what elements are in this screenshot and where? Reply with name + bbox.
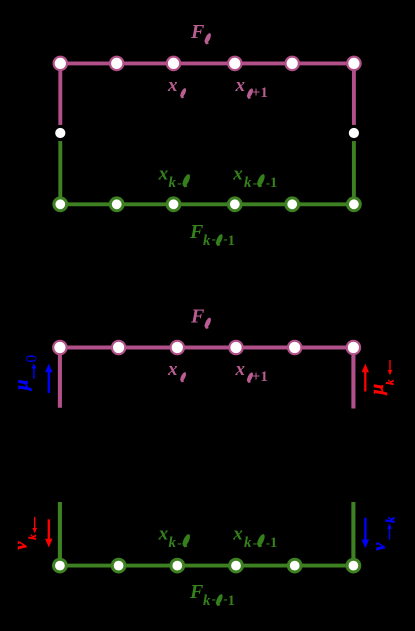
label: F_k-l-1 (top figure) [189,221,235,249]
svg-text:k: k [385,379,397,385]
node: green path vertex 6 (bottom figure) [347,559,360,572]
label: rotated red nu (bottom-left walk label) [10,541,30,550]
svg-text:1: 1 [270,175,277,191]
svg-text:-: - [177,535,181,550]
node: green path vertex 1 (bottom figure) [54,559,67,572]
svg-text:-: - [212,231,216,246]
svg-text:x: x [167,359,178,380]
svg-text:-: - [177,175,181,190]
node: top row pink vertex x_l+1 [228,57,241,70]
label: rotated red subscript k (bottom-left walk label) [27,534,39,540]
label: rotated red mu (top-right walk label) [367,384,388,396]
svg-text:1: 1 [228,233,235,249]
svg-text:ν: ν [10,541,30,550]
node: bottom row green vertex 5 [286,198,299,211]
node: pink path vertex x_l (bottom figure) [171,341,184,354]
label: F_l (top figure) [190,21,212,44]
wire: right pink vertical edge (top figure) [352,63,356,133]
svg-text:k: k [244,175,252,191]
wire: pink left downward stub [58,348,62,408]
node: left middle white vertex [54,126,67,139]
svg-text:k: k [203,593,211,609]
svg-text:x: x [235,359,246,380]
node: green path vertex 5 (bottom figure) [288,559,301,572]
node: green path vertex 2 (bottom figure) [112,559,125,572]
node: bottom row green vertex x_k-l-1 [228,198,241,211]
node: pink path vertex 2 (bottom figure) [112,341,125,354]
label: x_l+1 (top figure) [235,75,268,101]
node: top row pink vertex 5 [286,57,299,70]
label: x_k-l-1 (bottom figure) [232,523,277,551]
label: rotated blue mu (top-left walk label) [12,380,33,392]
arrow: thin red down arrow (bottom-left walk label) [32,517,37,533]
node: pink path vertex x_l+1 (bottom figure) [229,341,242,354]
node: bottom row green vertex 6 [348,198,361,211]
node: bottom row green vertex 2 [110,198,123,211]
wire: green left upward stub [58,502,62,566]
node: top row pink vertex 6 [347,57,360,70]
wire: left pink vertical edge (top figure) [58,63,62,133]
wire: bottom green path row (top figure) [60,202,354,206]
svg-text:k: k [244,535,252,551]
node: top row pink vertex x_l [167,57,180,70]
node: pink path vertex 6 (bottom figure) [347,341,360,354]
svg-text:F: F [189,221,204,243]
label: F_k-l-1 (bottom figure) [189,581,235,609]
arrow: bold red up arrow beside pink right stub [362,364,369,392]
svg-text:-: - [253,175,257,190]
svg-text:x: x [232,163,243,184]
label: rotated red subscript k (top-right walk label) [385,379,397,385]
svg-text:+1: +1 [252,369,268,385]
wire: left green vertical edge (top figure) [58,133,62,204]
node: green path vertex x_k-l (bottom figure) [171,559,184,572]
node: top row pink vertex 1 [54,57,67,70]
svg-text:ν: ν [369,542,389,551]
svg-text:-: - [253,535,257,550]
svg-text:F: F [189,581,204,603]
node: bottom row green vertex x_k-l [167,198,180,211]
svg-text:-: - [212,591,216,606]
svg-text:1: 1 [270,535,277,551]
svg-text:k: k [169,175,177,191]
svg-text:F: F [190,306,205,328]
svg-text:μ: μ [12,380,33,392]
svg-text:0: 0 [23,354,40,362]
arrow: thin blue up arrow (bottom-right walk label) [387,524,392,540]
svg-text:x: x [158,523,169,544]
label: rotated blue subscript k (bottom-right walk label) [383,516,398,523]
label: rotated blue nu (bottom-right walk label) [369,542,389,551]
wire: green path row (bottom figure) [60,564,354,568]
arrow: bold blue up arrow beside pink left stub [45,364,52,393]
svg-text:k: k [169,535,177,551]
svg-text:k: k [383,516,398,523]
node: green path vertex x_k-l-1 (bottom figure) [230,559,243,572]
label: x_l (bottom figure) [167,359,187,382]
wire: pink path row (bottom figure) [60,346,354,350]
label: x_l+1 (bottom figure) [235,359,268,385]
node: bottom row green vertex 1 [54,198,67,211]
node: pink path vertex 5 (bottom figure) [288,341,301,354]
arrow: bold red down arrow beside green left stub [45,519,52,547]
label: x_k-l (bottom figure) [158,523,192,551]
svg-text:x: x [232,523,243,544]
svg-text:F: F [190,21,205,43]
svg-text:x: x [167,75,178,96]
node: pink path vertex 1 (bottom figure) [53,341,66,354]
svg-text:x: x [158,163,169,184]
wire: green right upward stub [351,502,355,566]
label: rotated blue subscript 0 (top-left walk label) [23,354,40,362]
svg-text:x: x [235,75,246,96]
wire: pink right downward stub [351,348,355,409]
wire: top pink path row (top figure) [60,61,354,65]
label: x_k-l-1 (top figure) [232,163,277,191]
label: x_k-l (top figure) [158,163,192,191]
wire: right green vertical edge (top figure) [352,133,356,204]
arrow: thin blue up arrow (top-left walk label) [32,363,37,379]
svg-text:+1: +1 [252,85,268,101]
svg-text:1: 1 [228,593,235,609]
arrow: thin red down arrow (top-right walk label) [388,360,393,375]
svg-text:k: k [203,233,211,249]
arrow: bold blue down arrow beside green right stub [362,518,369,549]
svg-text:k: k [27,534,39,540]
label: F_l (bottom figure) [190,306,212,329]
label: x_l (top figure) [167,75,187,98]
node: right middle white vertex [347,126,360,139]
node: top row pink vertex 2 [110,57,123,70]
